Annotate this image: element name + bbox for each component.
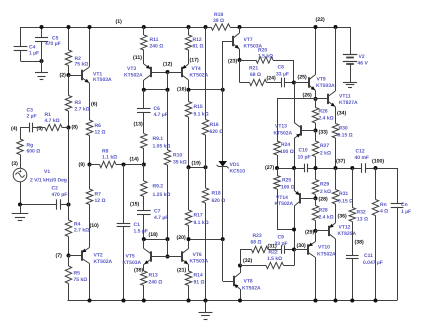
junction node12-link: [166, 88, 170, 92]
label R16: [210, 122, 224, 135]
wire VD1 bottom: [222, 167, 224, 240]
svg-text:(1): (1): [116, 19, 123, 25]
resistor R7: [86, 189, 92, 205]
wire C6 top: [143, 90, 145, 109]
wire R25 down: [277, 189, 279, 230]
junction VT2-bus: [88, 299, 92, 303]
capacitor C2: [57, 199, 61, 209]
wire node9 to R8: [90, 164, 100, 166]
junction bus-R2: [67, 25, 71, 29]
wire node100 to Rn: [375, 168, 377, 200]
junction node14-R9: [142, 163, 146, 167]
node 25: [298, 74, 307, 80]
label VT2: [94, 253, 113, 266]
wire VT2 base: [69, 255, 82, 257]
label VT6: [190, 252, 209, 265]
wire VT14 base: [300, 198, 316, 200]
label VT1: [93, 71, 112, 83]
svg-text:2 V/1 kHz/0 Deg: 2 V/1 kHz/0 Deg: [30, 178, 67, 184]
label C11: [363, 253, 383, 266]
wire R12 to VT4: [188, 50, 190, 64]
wire node4 to Rg: [20, 128, 22, 140]
AC source V1: [13, 168, 27, 182]
node 21: [177, 268, 186, 274]
resistor R26: [312, 108, 318, 124]
svg-text:(16): (16): [177, 87, 186, 93]
wire R2 top: [68, 27, 70, 50]
wire R3 bottom to node 8: [68, 111, 70, 128]
resistor R24: [274, 141, 280, 155]
wire VT13 collector up: [294, 83, 296, 123]
label R21: [249, 66, 261, 79]
wire VT9 emitter: [315, 91, 317, 99]
svg-text:(22): (22): [316, 17, 325, 23]
wire C2 to node: [60, 204, 68, 206]
wire VT13 base: [301, 130, 316, 132]
label R17: [194, 213, 209, 227]
svg-text:0.15 Ω: 0.15 Ω: [338, 133, 353, 139]
wire node26 to R26: [315, 99, 317, 108]
junction bus-R16: [204, 25, 208, 29]
svg-text:R23: R23: [253, 233, 262, 239]
svg-text:KT502A: KT502A: [242, 286, 261, 292]
junction bus-VT11: [334, 25, 338, 29]
resistor R28: [312, 206, 318, 221]
svg-text:2 kΩ: 2 kΩ: [320, 189, 331, 195]
wire node27 to R25: [277, 168, 279, 176]
wire R11 top: [143, 27, 145, 35]
resistor R23: [252, 246, 269, 252]
svg-text:40 mF: 40 mF: [355, 155, 369, 161]
junction VT10-bus: [314, 299, 318, 303]
node 13: [134, 121, 143, 127]
label VT10: [317, 245, 336, 258]
wire VT7 base: [223, 41, 233, 43]
label R5: [74, 271, 88, 284]
wire C9 to node30: [285, 249, 294, 251]
svg-text:(25): (25): [298, 74, 307, 80]
svg-text:91 Ω: 91 Ω: [193, 44, 204, 50]
label R11: [150, 37, 164, 50]
svg-text:R15: R15: [194, 104, 203, 110]
node 28: [314, 196, 328, 202]
wire VT10 base: [294, 249, 308, 251]
wire VT8 emitter down: [240, 289, 242, 301]
svg-text:R9.2: R9.2: [153, 184, 164, 190]
wire VT3 emitter down: [143, 80, 145, 90]
svg-text:C8: C8: [278, 65, 285, 71]
svg-text:(23): (23): [228, 58, 237, 64]
transistor VT5: [144, 249, 151, 265]
svg-text:R28: R28: [319, 208, 328, 214]
wire node37 to R32: [352, 168, 354, 208]
wire VT6 emitter down: [188, 265, 190, 272]
wire VT3 base: [151, 72, 168, 74]
svg-text:(10): (10): [90, 223, 99, 229]
svg-text:(100): (100): [372, 159, 384, 165]
svg-text:(34): (34): [337, 111, 346, 117]
label C2: [52, 186, 68, 199]
svg-text:VT11: VT11: [339, 94, 351, 100]
wire node33 to R27: [315, 131, 317, 142]
label R27: [320, 143, 331, 157]
svg-text:600 Ω: 600 Ω: [27, 149, 41, 155]
junction R32-node37: [350, 166, 354, 170]
svg-text:R25: R25: [282, 178, 291, 184]
junction bus-R11: [142, 25, 146, 29]
wire node19 to R17: [188, 167, 190, 210]
wire node14 to R9.2: [143, 165, 145, 182]
svg-text:(20): (20): [177, 235, 186, 241]
junction R18-node19: [204, 165, 208, 169]
resistor R15: [185, 102, 191, 118]
wire node32 up: [240, 250, 242, 266]
resistor R20: [256, 57, 273, 63]
ground (main): [199, 313, 213, 320]
wire R11 to VT3: [143, 50, 145, 64]
svg-text:9.1 kΩ: 9.1 kΩ: [194, 112, 209, 118]
svg-text:VT12: VT12: [339, 225, 351, 231]
capacitor C5: [35, 38, 48, 42]
wire VT6 collector up: [188, 239, 190, 248]
wire VT5 emitter down: [143, 265, 145, 272]
svg-text:1.5 kΩ: 1.5 kΩ: [258, 54, 273, 60]
zener diode VD1: [217, 161, 229, 168]
svg-text:(18): (18): [149, 232, 158, 238]
junction C5-ground: [40, 59, 44, 63]
svg-text:R29: R29: [320, 182, 329, 188]
wire VT4 collector down: [188, 80, 190, 90]
wire Rn to bus: [375, 216, 377, 301]
node 34: [337, 111, 346, 117]
svg-text:(24): (24): [267, 76, 276, 82]
label VT11: [339, 94, 358, 107]
svg-text:R18: R18: [212, 191, 221, 197]
svg-text:2.7 kΩ: 2.7 kΩ: [75, 107, 90, 113]
svg-text:(11): (11): [133, 55, 142, 61]
transistor VT13: [294, 123, 301, 139]
svg-text:KT502A: KT502A: [124, 73, 143, 79]
node 20 label: [177, 235, 186, 241]
svg-text:68 Ω: 68 Ω: [250, 72, 261, 78]
svg-text:VT3: VT3: [127, 66, 136, 72]
svg-text:(6): (6): [91, 102, 98, 108]
wire VT11 base: [316, 98, 329, 100]
wire R1 to node 8: [62, 127, 69, 129]
wire C4 top: [20, 27, 22, 47]
svg-text:(32): (32): [243, 258, 252, 264]
transistor VT11: [328, 91, 336, 107]
svg-text:(19): (19): [192, 161, 201, 167]
node 10 label: [90, 223, 99, 229]
label C5: [45, 36, 61, 48]
wire VT1 collector: [89, 27, 91, 67]
svg-text:C11: C11: [364, 253, 373, 259]
wire C5 bottom: [41, 41, 43, 61]
svg-text:(28): (28): [319, 197, 328, 203]
label C7: [154, 209, 168, 222]
junction VT3-C6: [142, 88, 146, 92]
svg-text:R31: R31: [339, 191, 348, 197]
junction VT12-bus: [334, 299, 338, 303]
capacitor C10: [305, 164, 308, 173]
wire VT5 collector up: [143, 239, 145, 248]
wire to R21: [240, 82, 250, 84]
wire VT12 emitter down: [335, 239, 337, 301]
node 36: [338, 214, 347, 220]
wire R25 to VT14: [277, 229, 294, 231]
transistor VT7: [233, 33, 240, 49]
junction bases: [166, 255, 170, 259]
resistor R29: [312, 180, 318, 195]
wire node12 to R10: [167, 90, 169, 150]
wire VT11 emitter: [335, 107, 337, 124]
node 4: [11, 126, 18, 132]
wire node23 to R20: [240, 60, 257, 62]
wire V1 bottom: [20, 182, 22, 205]
svg-text:240 Ω: 240 Ω: [150, 44, 164, 50]
resistor R9.1: [141, 134, 147, 149]
resistor Rn: [372, 200, 378, 216]
transistor VT4: [182, 64, 189, 80]
svg-text:1.5 µF: 1.5 µF: [134, 229, 148, 235]
label R15: [194, 104, 209, 118]
svg-text:470 pF: 470 pF: [52, 192, 68, 198]
svg-text:C2: C2: [52, 186, 59, 192]
svg-text:(39): (39): [134, 268, 143, 274]
label R25: [281, 178, 295, 191]
node 30: [292, 243, 306, 252]
resistor R10: [164, 150, 170, 165]
junction R15-node19: [187, 165, 191, 169]
svg-text:2 kΩ: 2 kΩ: [320, 151, 331, 157]
wire R2 bottom to node 2: [68, 66, 70, 76]
svg-text:R14: R14: [194, 273, 203, 279]
node 3: [12, 161, 19, 167]
wire R9.1 to node14: [143, 149, 145, 165]
svg-text:9.1 kΩ: 9.1 kΩ: [194, 220, 209, 226]
svg-text:(8): (8): [72, 125, 79, 131]
label VD1: [230, 162, 246, 175]
wire R10 to node18: [167, 165, 169, 239]
label R23: [251, 233, 262, 246]
svg-text:R24: R24: [281, 142, 290, 148]
junction R24-node27: [275, 166, 279, 170]
ground (C5 filter): [35, 73, 48, 80]
junction C2/R-column: [67, 203, 71, 207]
resistor R13: [141, 271, 147, 286]
node 17: [190, 58, 199, 64]
wire VT9 base: [294, 82, 309, 84]
capacitor C9: [282, 245, 285, 254]
transistor VT1: [82, 67, 90, 83]
junction C11-bus: [350, 299, 354, 303]
label R8: [102, 149, 117, 161]
svg-text:75 kΩ: 75 kΩ: [74, 277, 88, 283]
svg-text:VT9: VT9: [317, 77, 326, 83]
resistor R11: [141, 35, 147, 50]
resistor R21: [250, 79, 267, 85]
resistor Rg: [17, 139, 23, 155]
svg-text:(5): (5): [37, 126, 44, 132]
label R12: [193, 37, 204, 50]
junction bus-VT7: [238, 25, 242, 29]
svg-text:(36): (36): [338, 214, 347, 220]
label V1: [30, 169, 67, 184]
label C8: [276, 65, 289, 78]
resistor R2: [65, 50, 71, 66]
capacitor Cn: [391, 204, 404, 208]
wire zener col down: [222, 239, 224, 281]
wire VT1 base: [69, 75, 83, 77]
svg-text:C1: C1: [134, 222, 141, 228]
wire VT10 collector up: [315, 231, 317, 242]
wire VT9 collector: [315, 27, 317, 75]
svg-text:4.7 kΩ: 4.7 kΩ: [45, 118, 60, 124]
resistor R5: [65, 266, 71, 284]
svg-text:R6: R6: [95, 123, 102, 129]
svg-text:2.7 kΩ: 2.7 kΩ: [74, 228, 89, 234]
node 6: [91, 102, 98, 108]
label C3: [27, 108, 37, 120]
label R10: [173, 153, 187, 166]
node 29: [305, 229, 318, 236]
svg-text:KC510: KC510: [230, 169, 246, 175]
junction node14-C1: [122, 163, 126, 167]
node 16 wire: [189, 89, 223, 91]
svg-text:(38): (38): [355, 240, 364, 246]
wire R5 to bus: [68, 284, 69, 301]
wire node9 to R7: [89, 165, 91, 190]
svg-text:2 µF: 2 µF: [27, 114, 37, 120]
wire mirror link: [144, 89, 168, 91]
svg-text:240 Ω: 240 Ω: [149, 280, 163, 286]
wire R4 to node 7: [68, 237, 70, 256]
transistor VT9: [309, 75, 316, 91]
node 18 label: [149, 232, 158, 238]
junction R25-VT14: [292, 228, 296, 232]
capacitor C8: [282, 78, 285, 88]
node 32: [238, 258, 252, 268]
svg-text:V2: V2: [359, 54, 365, 60]
svg-text:13 Ω: 13 Ω: [357, 217, 368, 223]
junction R13-bus: [142, 299, 146, 303]
transistor VT3: [144, 64, 151, 80]
svg-text:1.5 kΩ: 1.5 kΩ: [267, 256, 282, 262]
wire R30 to node37: [335, 138, 337, 168]
svg-text:33 pF: 33 pF: [275, 241, 288, 247]
transistor VT14: [294, 190, 300, 206]
capacitor C4: [14, 47, 28, 51]
label R4: [74, 222, 89, 234]
junction VD1-node20: [221, 237, 225, 241]
svg-text:KT502A: KT502A: [275, 201, 294, 207]
junction R10-bases: [166, 237, 170, 241]
svg-text:68 Ω: 68 Ω: [251, 240, 262, 246]
wire R13 to bus: [143, 286, 145, 301]
node 27 label: [265, 165, 274, 171]
label R30: [338, 126, 353, 139]
svg-text:VT4: VT4: [192, 66, 201, 72]
label R32: [357, 210, 368, 223]
svg-text:R11: R11: [150, 37, 159, 43]
wire top supply bus (node 1) left of R19: [21, 27, 212, 29]
resistor R16: [202, 120, 208, 136]
label R26: [319, 109, 334, 122]
resistor R30: [332, 124, 338, 139]
ground (input): [12, 214, 29, 221]
svg-text:KT825A: KT825A: [338, 231, 357, 237]
label R1: [45, 112, 60, 124]
wire C8 to junction: [285, 82, 294, 84]
ground (battery): [343, 83, 357, 88]
transistor VT2: [82, 248, 90, 264]
wire node28 to R28: [315, 198, 317, 205]
wire Cn to bus: [397, 207, 399, 300]
label R20: [258, 48, 273, 60]
node 19 label: [192, 161, 201, 167]
resistor R17: [185, 210, 191, 226]
wire node37 to R31: [335, 168, 337, 190]
svg-text:(2): (2): [60, 73, 67, 79]
svg-text:10 pF: 10 pF: [298, 155, 311, 161]
label R7: [95, 192, 106, 205]
svg-text:VT2: VT2: [94, 253, 103, 259]
label C1: [134, 222, 148, 235]
svg-text:1 µF: 1 µF: [401, 209, 411, 215]
label VT12: [338, 225, 357, 238]
svg-text:(13): (13): [134, 121, 143, 127]
wire VT4 base: [168, 72, 182, 74]
node 33: [314, 129, 328, 136]
node 11: [133, 55, 142, 61]
svg-text:75 kΩ: 75 kΩ: [75, 62, 89, 68]
svg-text:R27: R27: [320, 143, 329, 149]
capacitor C7: [137, 211, 151, 215]
label C4: [29, 45, 39, 57]
svg-text:Cn: Cn: [401, 202, 408, 208]
wire R6 bottom to node 9: [89, 136, 91, 165]
wire C1 to bus: [123, 227, 125, 301]
node 37 wire: [308, 168, 362, 170]
junction R17-node20: [187, 237, 191, 241]
label C10: [298, 148, 311, 161]
wire node32 to R22: [240, 265, 266, 267]
svg-text:C10: C10: [299, 148, 308, 154]
svg-text:VT5: VT5: [126, 254, 135, 260]
wire Rg to V1: [20, 155, 22, 169]
svg-text:12 Ω: 12 Ω: [95, 130, 106, 136]
svg-text:(14): (14): [130, 156, 139, 162]
wire R18 to bus: [205, 203, 207, 301]
svg-text:R21: R21: [249, 66, 258, 72]
svg-text:R3: R3: [75, 100, 82, 106]
svg-text:VT8: VT8: [244, 279, 253, 285]
svg-text:R10: R10: [173, 153, 182, 159]
wire bases drop: [167, 239, 169, 256]
svg-text:4.7 µF: 4.7 µF: [154, 215, 168, 221]
node 8: [67, 125, 79, 131]
resistor R4: [65, 220, 71, 237]
svg-text:100 Ω: 100 Ω: [280, 149, 294, 155]
node 18 wire: [144, 239, 168, 241]
svg-text:R30: R30: [339, 126, 348, 132]
svg-text:VT10: VT10: [318, 245, 330, 251]
junction node16-VD1: [221, 88, 225, 92]
junction C8/R20/VT9: [292, 81, 296, 85]
svg-text:(12): (12): [163, 62, 172, 68]
wire C11 to bus: [352, 259, 354, 301]
